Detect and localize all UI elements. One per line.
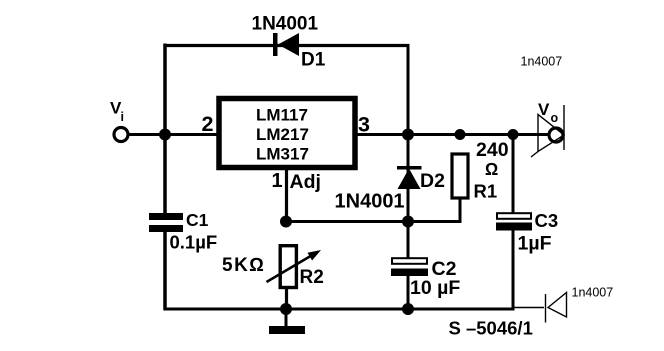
wire right branch vertical lower (C3 to bottom wire)	[512, 230, 515, 311]
svg-text:LM217: LM217	[256, 125, 309, 144]
svg-text:2: 2	[202, 112, 214, 136]
wire left vertical upper (top wire to C1)	[163, 44, 167, 215]
svg-text:1µF: 1µF	[518, 233, 552, 255]
node junction D2 bottom / C2 top	[402, 216, 414, 228]
svg-text:1N4001: 1N4001	[335, 191, 405, 213]
svg-text:Adj: Adj	[290, 171, 321, 193]
svg-text:D2: D2	[420, 170, 445, 192]
svg-text:1n4007: 1n4007	[521, 55, 563, 69]
terminal Vi	[114, 128, 128, 142]
svg-text:3: 3	[358, 113, 370, 137]
svg-text:D1: D1	[301, 50, 326, 71]
node junction C3 branch	[508, 129, 519, 140]
wire bottom horizontal	[164, 308, 514, 311]
node junction Adj	[280, 216, 292, 228]
capacitor C1	[149, 213, 183, 232]
wire Adj vertical	[285, 167, 288, 223]
svg-text:1n4007: 1n4007	[572, 286, 614, 300]
svg-text:0.1µF: 0.1µF	[170, 232, 218, 253]
potentiometer R2	[267, 246, 322, 288]
svg-text:Ω: Ω	[485, 159, 498, 179]
wire R2 bottom to bottom wire	[285, 287, 288, 310]
wire right branch vertical upper (to C3)	[512, 134, 515, 214]
node junction R1 top	[455, 129, 466, 140]
wire top-right vertical drop to output node	[407, 45, 410, 136]
svg-text:1: 1	[272, 170, 283, 192]
node junction output/top-wire	[402, 129, 414, 141]
svg-text:C1: C1	[186, 210, 209, 230]
wire left vertical lower (C1 to bottom wire)	[163, 231, 167, 310]
svg-text:R2: R2	[300, 267, 324, 288]
capacitor C2	[391, 221, 428, 310]
svg-text:S –5046/1: S –5046/1	[449, 318, 533, 339]
svg-text:1N4001: 1N4001	[252, 14, 319, 35]
annotation thin wire bottom right	[513, 307, 544, 309]
op-amp regulator U1 LM117/LM217/LM317	[219, 99, 355, 168]
diode D2	[397, 166, 422, 189]
node junction C2 bottom	[402, 303, 414, 315]
annotation thin diode over Vo	[531, 105, 564, 157]
wire top horizontal	[164, 44, 410, 47]
wire Adj node to R1 bottom	[286, 198, 460, 222]
svg-text:LM117: LM117	[256, 106, 308, 125]
ground	[269, 309, 305, 334]
terminal Vo	[549, 128, 563, 142]
svg-text:LM317: LM317	[256, 145, 309, 164]
diode D1	[273, 33, 299, 56]
node junction bottom R2/ground	[280, 303, 292, 315]
svg-text:R1: R1	[474, 181, 498, 202]
svg-text:C3: C3	[535, 210, 559, 231]
svg-text:o: o	[551, 111, 559, 125]
wire output pin3 to Vo	[356, 133, 549, 136]
svg-text:10 µF: 10 µF	[410, 277, 460, 299]
wire D2 branch vertical	[407, 134, 410, 223]
svg-text:5KΩ: 5KΩ	[222, 255, 265, 276]
resistor R1	[452, 154, 468, 198]
svg-text:i: i	[121, 110, 124, 124]
wire Vi to pin 2	[129, 133, 218, 136]
capacitor C3	[496, 213, 532, 230]
node junction Vi	[159, 129, 171, 141]
annotation thin diode bottom right	[546, 293, 567, 323]
svg-text:240: 240	[476, 139, 509, 161]
